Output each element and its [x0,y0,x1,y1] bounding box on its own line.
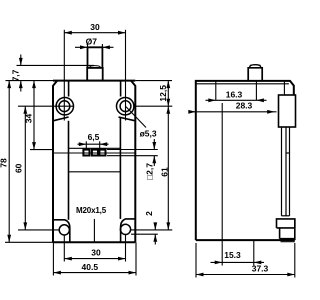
top-right hole Ø5,3 [120,101,131,112]
bottom-left ear [53,220,70,243]
seam line across body [53,152,135,154]
top edge extension right (to 12,5 dim) [135,80,172,82]
svg-text:30: 30 [90,22,100,32]
side bottom edge [196,239,295,241]
side internal line [221,103,223,240]
body top edge [53,80,135,82]
svg-text:15.3: 15.3 [224,250,241,260]
svg-text:40.5: 40.5 [82,262,99,272]
lower seam line [69,171,121,173]
side plunger dome [248,68,262,81]
side plunger seam [249,65,261,68]
top-left hole Ø5,3 [59,101,70,112]
terminal square 1 [83,150,89,156]
top-left ear inner vertical [68,81,70,97]
side lever block (top right) [279,95,296,127]
side top seam [283,81,285,95]
svg-text:16.3: 16.3 [226,89,243,99]
side top seam horizontal [196,83,289,85]
side cable gland step 2 [277,219,295,240]
svg-text:7,7: 7,7 [11,69,21,81]
bottom edge extension left (to 78 dim) [5,241,53,243]
svg-text:M20x1,5: M20x1,5 [76,206,107,215]
side right face lines [282,127,290,216]
left column line [68,121,70,220]
svg-text:6,5: 6,5 [88,132,100,142]
terminal strip top line [69,147,121,149]
side cable gland step 1 [277,219,295,228]
svg-text:2: 2 [144,211,154,216]
side body outline [196,81,294,240]
svg-text:□2,7: □2,7 [145,163,155,180]
terminal square 3 [99,150,105,156]
svg-text:78: 78 [0,158,9,168]
bottom-left hole [59,225,69,235]
plunger bushing [87,68,103,81]
top-left ear bottom line [53,117,69,121]
plunger shoulder arc [90,66,101,67]
svg-text:60: 60 [14,163,24,173]
bottom-right ear [121,219,136,242]
body right edge [131,81,135,243]
body left edge [53,81,57,243]
top edge extension left (to 7,7 / 34 dims) [6,80,54,82]
top-left boss circle [56,98,73,115]
plunger pin [88,47,103,68]
svg-text:61: 61 [160,167,170,177]
top-right ear bottom line [119,117,136,121]
top-right ear inner vertical [120,81,122,97]
svg-text:37.3: 37.3 [252,264,269,274]
bottom-right hole [120,224,130,234]
svg-text:ø5,3: ø5,3 [140,128,157,138]
svg-text:12,5: 12,5 [158,85,168,102]
svg-text:28.3: 28.3 [236,101,253,111]
side gland under-line [281,241,295,243]
terminal square 2 [92,150,98,156]
svg-text:Ø7: Ø7 [86,36,98,46]
M20 leader line [93,219,95,242]
top-right boss circle [117,98,134,115]
body bottom edge [53,241,135,243]
right column line [119,117,121,219]
svg-text:30: 30 [91,248,101,258]
